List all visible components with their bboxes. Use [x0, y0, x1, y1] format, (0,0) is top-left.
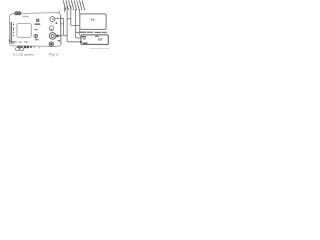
- terminal screw dot 2: [13, 28, 14, 29]
- bottom-left mark cluster: [10, 40, 11, 43]
- stray dot under bottom edge: [39, 47, 40, 48]
- svg-text:VCR: VCR: [98, 37, 103, 41]
- cable bundle hatching: [63, 0, 84, 10]
- small rect above screw: [58, 40, 60, 41]
- tiny text under VCR top edge: [95, 36, 99, 37]
- BNC connector J1: [50, 17, 55, 22]
- S1 dot: [16, 13, 17, 14]
- wire 2 cable to VCR: [67, 6, 81, 42]
- tiny text inside VCR row2: [83, 38, 86, 39]
- crossover hop: [67, 18, 70, 19]
- label under VR1: [35, 23, 41, 25]
- terminal screw dot 3: [13, 29, 14, 30]
- mounting square near J1: [56, 22, 58, 24]
- cable gland hook top-right: [57, 11, 60, 13]
- caption row between boxes seg1: [80, 32, 86, 33]
- DIP tab 4: [27, 46, 29, 48]
- camera control unit enclosure: [9, 13, 61, 47]
- bottom interior label row seg2: [18, 41, 22, 42]
- square lug at J3: [56, 35, 58, 37]
- trimmer VR1: [36, 19, 39, 22]
- bottom interior label row seg1: [14, 41, 17, 42]
- short cable wire stub: [64, 7, 66, 13]
- caption row between boxes seg0: [76, 32, 79, 33]
- wire Ps down to VCR: [79, 29, 81, 35]
- wire J1 to edge: [55, 17, 63, 19]
- label under SW1: [35, 39, 38, 40]
- tick on right edge: [61, 23, 63, 25]
- DIP tab 6 lighter: [33, 46, 35, 48]
- SW2 inner mark: [50, 43, 52, 45]
- connector J2: [49, 26, 54, 31]
- screw head SW2: [49, 42, 53, 46]
- terminal screw dot 4: [13, 32, 14, 33]
- BNC connector J3: [49, 33, 56, 40]
- access window W1: [17, 24, 31, 38]
- foot outline 2: [20, 48, 24, 51]
- foot outline 1: [16, 48, 20, 51]
- S2 dot: [19, 13, 20, 14]
- DIP tab 2: [20, 46, 22, 49]
- wire stub from box: [61, 17, 64, 19]
- dash label mid-left: [35, 29, 38, 30]
- wire 5 cable to Ps corner: [79, 9, 81, 14]
- J1 center pin: [52, 19, 53, 20]
- wire 1 down then right: [63, 18, 67, 35]
- caption row between boxes seg4: [102, 32, 107, 33]
- junction dot at VCR inlet: [80, 41, 82, 43]
- enclosure right edge darker: [60, 15, 62, 45]
- DIP tab 3: [24, 46, 26, 48]
- svg-text:To CCD camera: To CCD camera: [12, 53, 34, 57]
- terminal screw dot 1: [13, 24, 14, 25]
- J2 center dot: [51, 29, 53, 31]
- screw head SW1: [34, 34, 38, 38]
- terminal screw dot 5: [13, 35, 14, 36]
- DIP tab 1 under bottom edge: [17, 46, 19, 49]
- faint shadow under VCR: [90, 48, 111, 50]
- tiny text inside VCR row1: [82, 36, 86, 37]
- J3 inner ring: [51, 34, 54, 37]
- svg-text:Fig 2: Fig 2: [49, 52, 59, 57]
- SW1 slot dots: [35, 35, 36, 36]
- caption row between boxes seg2: [87, 32, 93, 33]
- switch S2 on top edge: [18, 12, 21, 15]
- DIP tab 5: [30, 46, 32, 48]
- tiny text inside VCR row3: [83, 43, 88, 44]
- VCR box: [81, 35, 108, 45]
- edge tick bottom-left: [8, 40, 10, 42]
- junction dot on Ps wire: [82, 24, 84, 26]
- svg-text:Ps: Ps: [91, 18, 95, 22]
- bottom interior label row seg3: [24, 41, 28, 42]
- wire 4 cable to VCR upper: [76, 9, 81, 38]
- wire 3 cable to Ps: [71, 6, 83, 26]
- wire J3 to edge: [59, 35, 63, 37]
- label text near top edge: [22, 16, 28, 17]
- terminal strip dark bar: [11, 22, 12, 44]
- caption row between boxes seg3: [95, 32, 102, 33]
- switch S1 on top edge: [15, 12, 18, 15]
- power supply box Ps: [80, 14, 106, 30]
